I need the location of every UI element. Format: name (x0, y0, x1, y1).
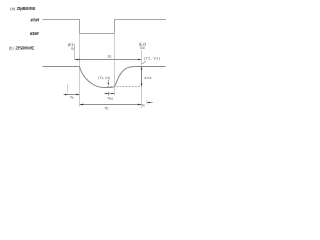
svg-text:Zfy9E0#f#E: Zfy9E0#f#E (17, 6, 36, 11)
voltage dip/recovery curve (80, 67, 166, 88)
svg-text:D1: D1 (108, 55, 112, 59)
Tba dimension (105, 93, 115, 95)
svg-text:(a): (a) (10, 6, 16, 11)
svg-text:Tc: Tc (142, 103, 146, 107)
svg-text:(T2, V2): (T2, V2) (144, 56, 161, 60)
svg-text:(T1, V1): (T1, V1) (98, 76, 110, 80)
small tick at x=67 (67, 85, 69, 93)
leader line from (T2,V2) (142, 61, 146, 64)
svg-text:Tb: Tb (104, 107, 108, 111)
svg-text:(b): (b) (9, 46, 15, 51)
Tb dimension line (80, 104, 142, 106)
waveform (a) step: off-on-off (43, 20, 167, 34)
dashed minimum-level line (107, 86, 142, 88)
header (a) スイッチの動作位置 (10, 6, 35, 11)
dashed guide vertical at switch-on x=79.5 (79, 34, 81, 107)
svg-text:Ta: Ta (70, 95, 74, 99)
leader from Ed down to Da line (74, 50, 76, 60)
dashed guide vertical at switch-off x=114.5 (114, 34, 116, 96)
delta-V dimension arrow (141, 67, 143, 86)
svg-text:#7#f: #7#f (31, 18, 40, 23)
voltage flat line before switch-on (43, 66, 80, 68)
leader arrow from (T1,V1) to minimum (107, 80, 109, 84)
dimension line Da from switch-on to T2 (75, 59, 141, 61)
Tc arrow and tick (147, 102, 153, 104)
svg-text:ZfS8f0#fE: ZfS8f0#fE (15, 46, 34, 51)
svg-text:Tba: Tba (107, 97, 113, 101)
svg-text:ΔVd: ΔVd (144, 76, 151, 80)
guide vertical at T2 x=141.5 (141, 50, 143, 108)
svg-text:Ed: Ed (71, 47, 75, 51)
header (b) 電気部品の電圧 (9, 46, 35, 51)
Ta dimension line (64, 94, 80, 96)
svg-text:Ed: Ed (140, 46, 144, 50)
svg-text:#2#f: #2#f (30, 31, 39, 36)
